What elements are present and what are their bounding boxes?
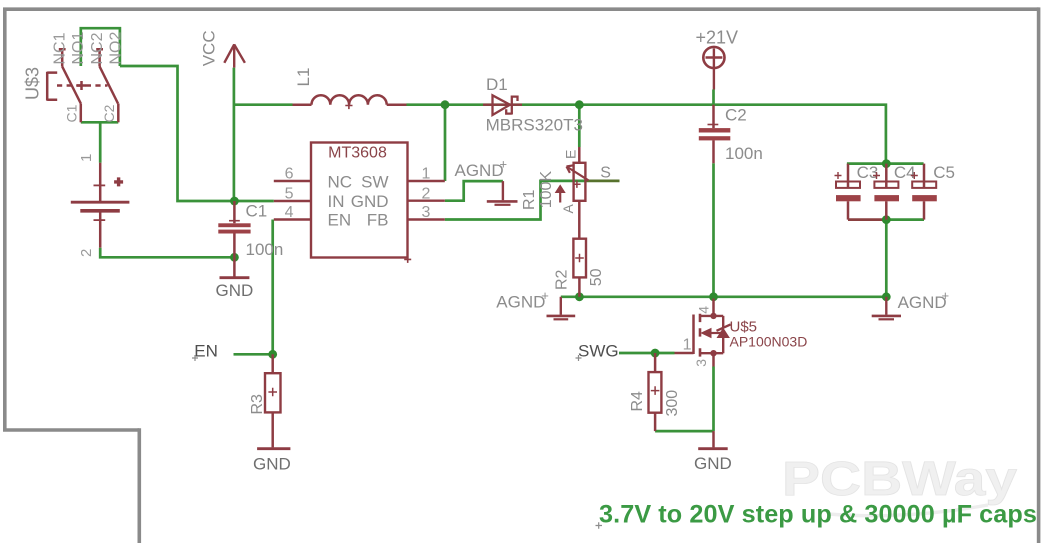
watermark swoosh (828, 505, 988, 516)
svg-text:50: 50 (588, 268, 605, 286)
svg-text:C2: C2 (725, 106, 747, 125)
svg-text:100K: 100K (538, 171, 555, 209)
wire node E to pot (578, 105, 581, 147)
IC U1 MT3608 (274, 143, 445, 263)
svg-text:+: + (541, 288, 549, 303)
svg-text:AGND: AGND (455, 161, 504, 180)
svg-text:NC1: NC1 (52, 32, 69, 64)
svg-text:SW: SW (361, 173, 388, 192)
svg-text:C5: C5 (933, 163, 955, 182)
svg-text:2: 2 (422, 186, 431, 203)
svg-text:SWG: SWG (578, 342, 619, 361)
battery (71, 163, 130, 248)
svg-text:FB: FB (367, 211, 389, 230)
svg-text:A: A (560, 204, 576, 214)
resistor R3 (265, 354, 281, 447)
svg-text:AP100N03D: AP100N03D (730, 334, 808, 350)
svg-text:+21V: +21V (696, 28, 739, 48)
wire caps top rail (847, 162, 924, 165)
svg-text:5: 5 (285, 186, 294, 203)
wire SWG to gate (619, 352, 675, 355)
svg-text:+: + (500, 157, 508, 172)
svg-text:3: 3 (693, 359, 709, 367)
ground GND under R3 (257, 447, 290, 450)
svg-text:IN: IN (328, 192, 345, 211)
wire NO2 to VCC node (120, 66, 234, 201)
svg-text:300: 300 (664, 390, 681, 417)
svg-text:R3: R3 (249, 394, 266, 415)
wire C2 bottom to AGND rail (712, 163, 715, 297)
svg-text:C1: C1 (246, 202, 268, 221)
junction node C1-battery (230, 253, 239, 262)
ground AGND near pin2 (487, 181, 518, 205)
wire IN pin5 (234, 200, 273, 203)
svg-text:3: 3 (422, 204, 431, 221)
junction node L1-D1-SW (441, 100, 450, 109)
wire caps bottom rail left (848, 218, 886, 221)
ground GND under mosfet (698, 431, 728, 449)
svg-text:GND: GND (694, 454, 732, 473)
resistor R2 (573, 239, 586, 297)
wire source down (712, 367, 715, 432)
svg-text:C3: C3 (857, 163, 879, 182)
svg-text:1: 1 (683, 337, 692, 354)
ground AGND right (872, 297, 901, 320)
watermark PCBWay (782, 452, 1017, 506)
transistor U$5 (675, 299, 731, 367)
svg-text:E: E (563, 150, 579, 159)
junction node caps top (882, 159, 891, 168)
svg-text:NO2: NO2 (108, 32, 125, 65)
wire +21V stub (712, 90, 715, 105)
junction node EN-R3 (268, 350, 277, 359)
resistor R4 (649, 353, 662, 431)
svg-text:AGND: AGND (496, 293, 545, 312)
svg-text:+: + (942, 288, 950, 303)
svg-text:C4: C4 (894, 163, 916, 182)
svg-text:C1: C1 (64, 104, 80, 122)
inductor L1 (293, 95, 407, 109)
svg-text:6: 6 (285, 166, 294, 183)
svg-text:PCBWay: PCBWay (782, 452, 1017, 506)
svg-text:1: 1 (422, 166, 431, 183)
svg-text:3.7V to 20V step up & 30000 µF: 3.7V to 20V step up & 30000 µF caps (599, 501, 1037, 529)
junction node caps bottom (882, 215, 891, 224)
junction node D1-E (575, 100, 584, 109)
junction node VCC-C1 (230, 197, 239, 206)
svg-text:R2: R2 (554, 269, 571, 290)
junction node R2-AGND rail (575, 292, 584, 301)
capacitor C3 (835, 164, 861, 220)
svg-text:C2: C2 (101, 104, 117, 122)
svg-text:100n: 100n (725, 144, 763, 163)
ground GND under C1 (220, 257, 250, 277)
wire node E to +21V column and right (579, 105, 886, 164)
svg-text:4: 4 (696, 306, 712, 314)
junction node C2-drain (709, 292, 718, 301)
wire VCC down (233, 68, 236, 201)
supply +21V (703, 47, 724, 90)
svg-text:NC2: NC2 (89, 32, 106, 64)
svg-text:GND: GND (253, 455, 291, 474)
wire pot S overlap (586, 180, 620, 183)
wire AGND rail (561, 295, 887, 298)
wire GND pin2 to AGND (445, 181, 503, 201)
wire battery minus to C1 bottom (100, 248, 234, 258)
diode D1 (483, 95, 522, 115)
wire caps bottom to AGND rail (885, 220, 888, 297)
svg-text:D1: D1 (486, 75, 508, 94)
svg-text:1: 1 (78, 154, 95, 162)
supply VCC (224, 44, 245, 68)
svg-text:MBRS320T3: MBRS320T3 (486, 115, 583, 134)
wire FB pin3 to pot S (445, 181, 586, 220)
wire L1 to node SW (407, 103, 446, 106)
svg-text:NC: NC (328, 173, 353, 192)
svg-text:100n: 100n (246, 240, 284, 259)
switch U$3 (47, 49, 118, 123)
svg-text:R1: R1 (521, 189, 538, 210)
svg-text:L1: L1 (294, 68, 313, 87)
wire caps bottom rail right (886, 218, 924, 221)
wire VCC to L1 (234, 103, 293, 106)
svg-text:R4: R4 (629, 391, 646, 412)
svg-text:S: S (600, 165, 611, 182)
capacitor C1 (218, 201, 250, 257)
svg-text:NO1: NO1 (70, 32, 87, 65)
wire node SW through D1 to node E (445, 103, 579, 106)
svg-text:4: 4 (285, 204, 294, 221)
wire SW pin1 vertical (444, 105, 447, 181)
title origin cross (596, 522, 603, 529)
junction node caps-AGND (882, 292, 891, 301)
capacitor C4 (873, 164, 899, 220)
wire EN pin4 down (234, 220, 273, 355)
svg-text:VCC: VCC (200, 30, 219, 66)
capacitor C5 (911, 164, 937, 220)
capacitor C2 (699, 105, 731, 164)
potentiometer R1 (556, 147, 589, 239)
wire R4 bottom to source (655, 430, 713, 433)
svg-text:EN: EN (328, 211, 352, 230)
svg-text:GND: GND (351, 192, 389, 211)
junction node SWG-R4 (651, 349, 660, 358)
wire NO1-NO2 bridge (81, 28, 120, 66)
wire C1-C2 common to battery (81, 122, 119, 162)
svg-text:MT3608: MT3608 (328, 145, 387, 162)
svg-text:U$3: U$3 (23, 67, 43, 100)
ground AGND bottom left (547, 297, 576, 320)
svg-text:GND: GND (216, 281, 254, 300)
svg-text:AGND: AGND (898, 293, 947, 312)
svg-text:2: 2 (78, 249, 95, 257)
